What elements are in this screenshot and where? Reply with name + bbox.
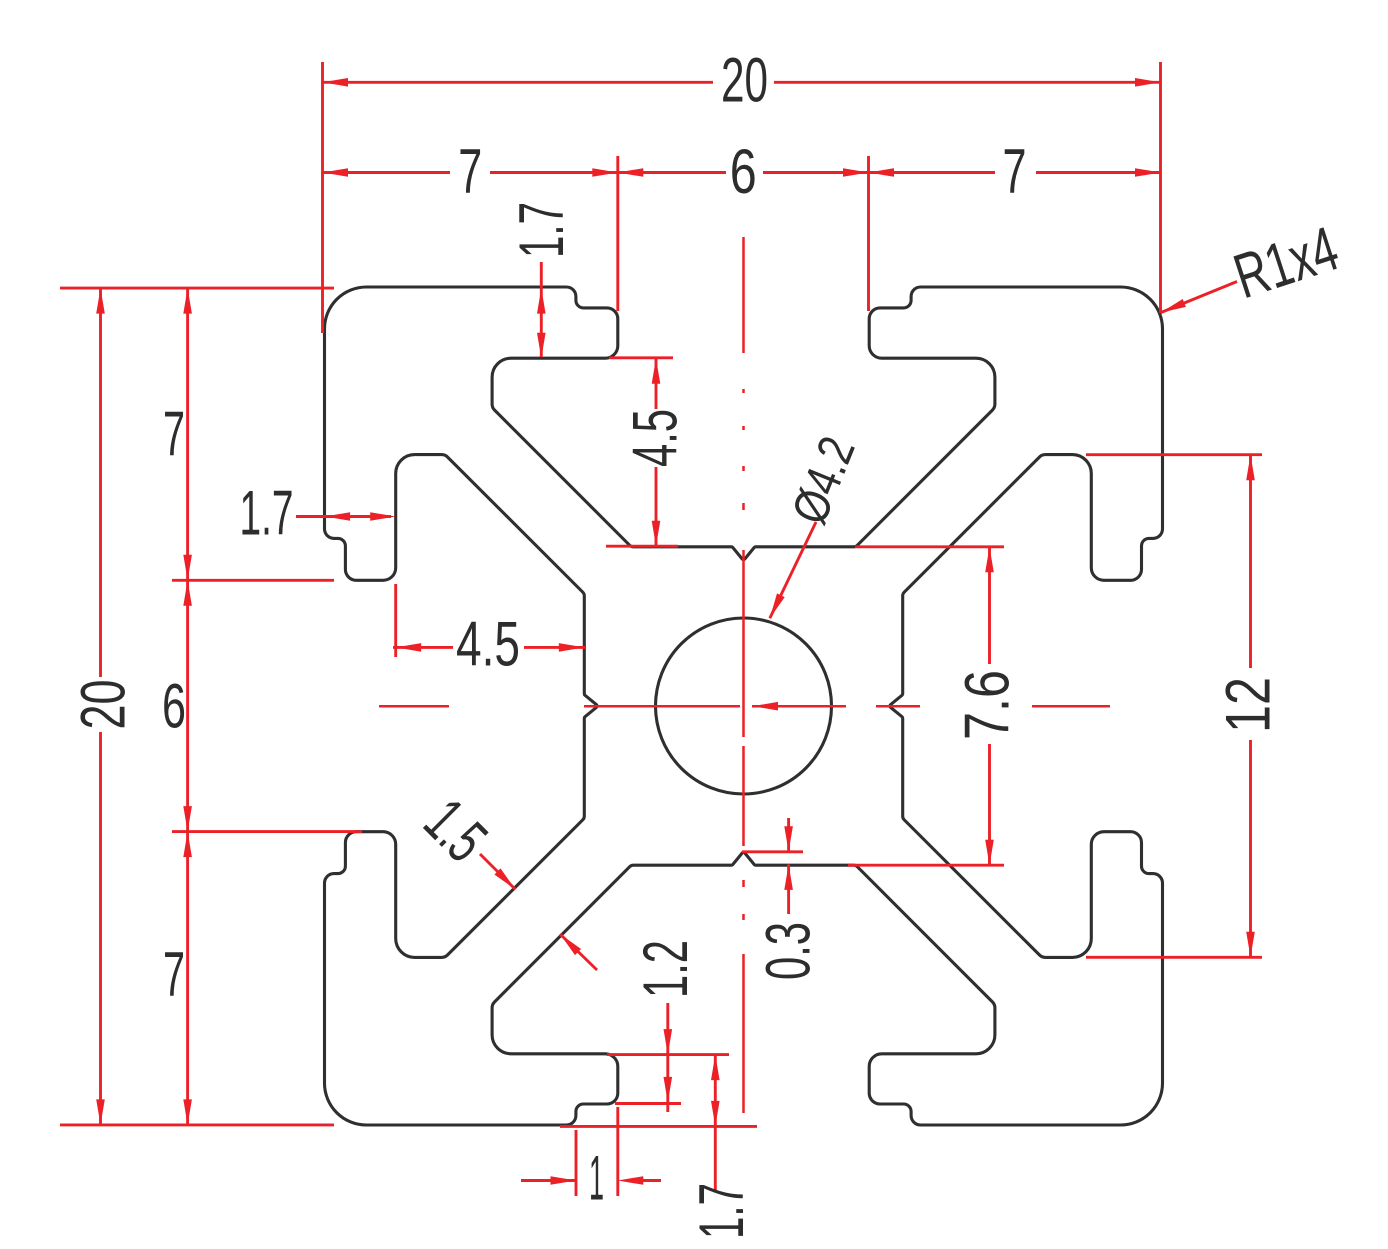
svg-text:7: 7 (163, 399, 185, 469)
svg-text:20: 20 (68, 680, 138, 730)
svg-text:1.2: 1.2 (631, 940, 701, 998)
svg-text:7.6: 7.6 (952, 670, 1022, 740)
svg-text:0.3: 0.3 (753, 922, 823, 980)
svg-text:1: 1 (589, 1143, 604, 1213)
svg-text:6: 6 (730, 137, 757, 207)
svg-text:6: 6 (162, 671, 186, 741)
svg-text:1.7: 1.7 (240, 478, 294, 548)
svg-text:4.5: 4.5 (620, 409, 690, 467)
svg-text:7: 7 (163, 940, 185, 1010)
svg-text:7: 7 (1003, 137, 1027, 207)
svg-text:1.7: 1.7 (687, 1183, 757, 1239)
svg-text:7: 7 (458, 137, 482, 207)
svg-text:12: 12 (1213, 677, 1283, 733)
svg-text:1.7: 1.7 (507, 202, 577, 258)
svg-text:4.5: 4.5 (456, 609, 520, 679)
svg-text:20: 20 (721, 45, 768, 115)
